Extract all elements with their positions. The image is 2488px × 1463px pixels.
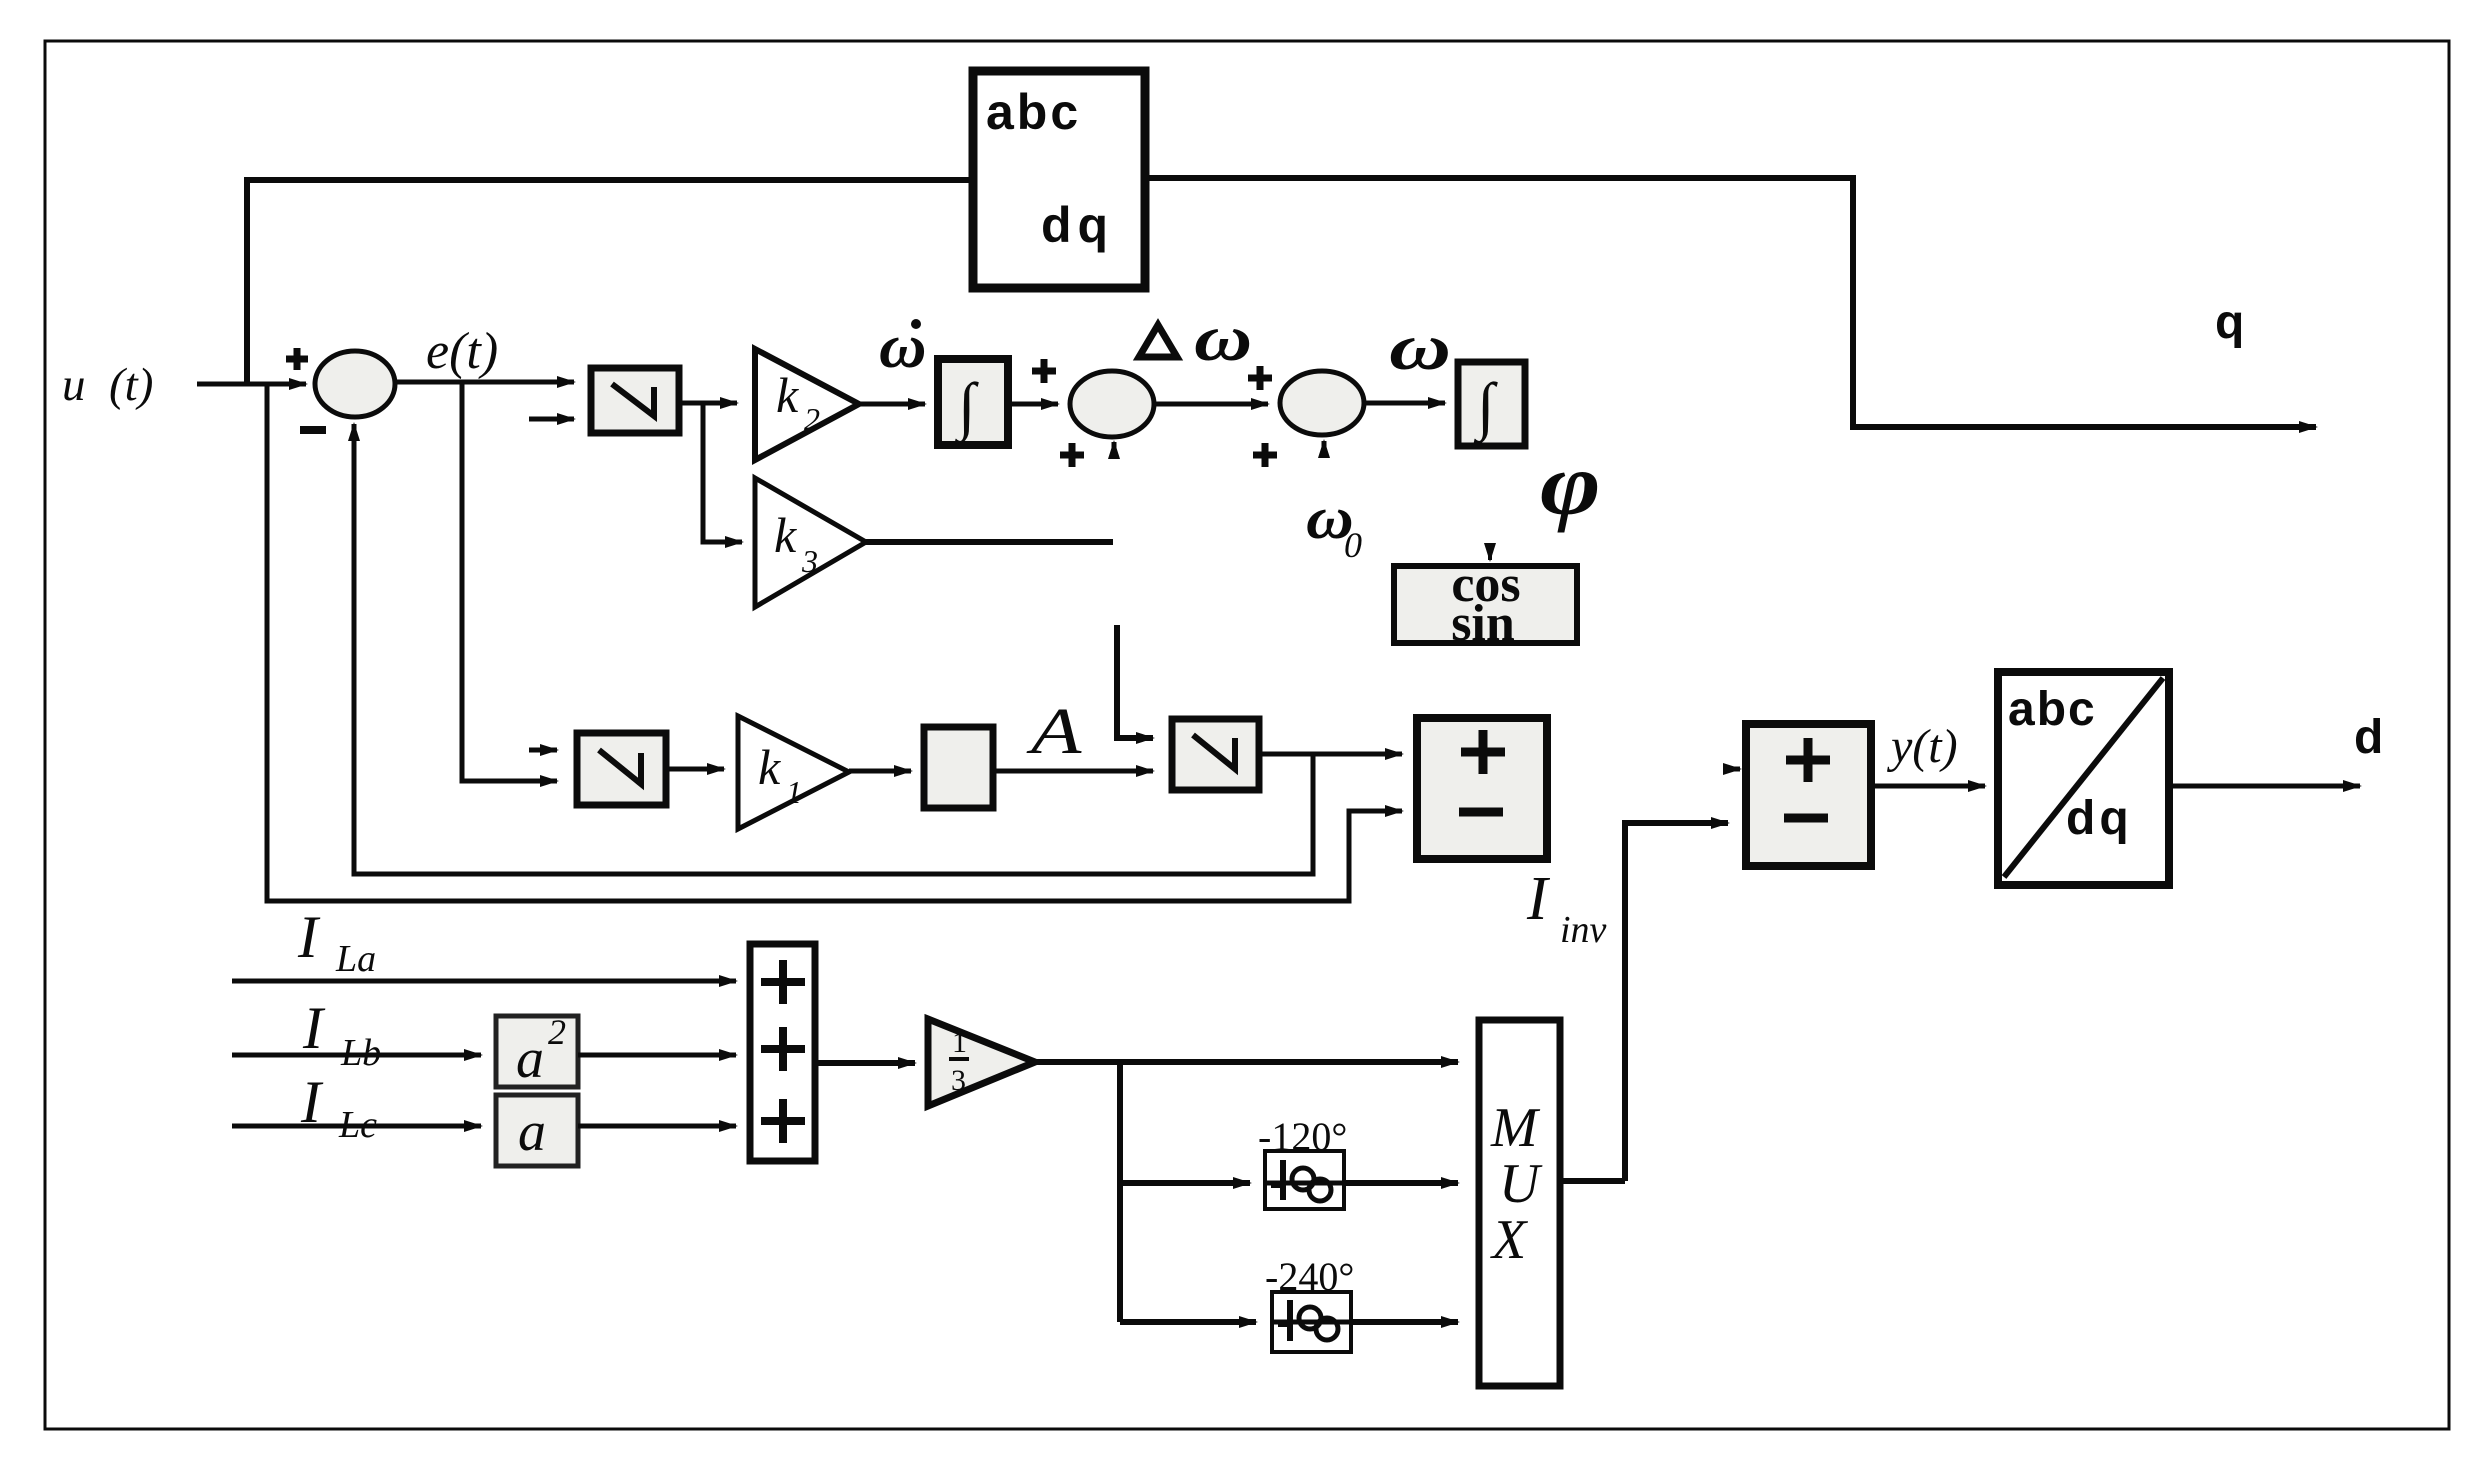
wire: k2 output to integrator 1 [859, 402, 925, 407]
wire: I_Lb input to a^2 block [232, 1053, 481, 1058]
svg-text:ω: ω [1194, 301, 1252, 375]
wire: 1/3 output to MUX input 1 [1035, 1059, 1458, 1065]
svg-text:q: q [2215, 296, 2244, 349]
wire: -240 block to MUX input 3 [1351, 1319, 1458, 1325]
svg-text:2: 2 [548, 1012, 566, 1052]
svg-text:1: 1 [952, 1026, 967, 1059]
svg-text:k: k [774, 507, 797, 563]
wire: -120 block to MUX input 2 [1344, 1180, 1458, 1186]
node delta-omega label [1139, 301, 1252, 375]
svg-text:X: X [1490, 1209, 1529, 1271]
svg-text:φ: φ [1540, 435, 1601, 533]
wire: saturation 2 output to gain k1 [666, 767, 724, 772]
wire: MUX output to I_inv riser [1560, 1178, 1625, 1184]
saturation block 1 [591, 368, 679, 433]
wire: stub arrow into saturation 1 lower input [529, 417, 574, 422]
wire: stub arrow into saturation 2 upper input [529, 748, 557, 753]
gain k3 triangle [755, 478, 866, 607]
wire: a^2 output to summing block [578, 1053, 736, 1058]
block abc/dq 2 (output transform) [1998, 672, 2169, 885]
wire: k1 output to square block [849, 769, 911, 774]
wire: I_La input to summing block [232, 979, 736, 984]
svg-text:dq: dq [2066, 792, 2133, 845]
wire: e(t) branch down to saturation 2 lower input [462, 382, 557, 781]
wire: saturation 1 output to gain k2 [679, 401, 737, 406]
svg-text:3: 3 [801, 543, 818, 579]
wire: e(t) line from summer 1 to saturation 1 [395, 380, 574, 385]
wire: subtractor 2 output to abc/dq 2 [1871, 784, 1985, 789]
integrator 1 [938, 359, 1008, 445]
integrator 2 [1458, 362, 1525, 446]
svg-text:d: d [2354, 711, 2383, 764]
svg-text:k: k [758, 739, 781, 795]
svg-text:La: La [335, 938, 376, 980]
svg-text:A: A [1025, 695, 1081, 768]
phase shift block -240 [1272, 1292, 1351, 1352]
svg-text:1: 1 [786, 774, 802, 810]
svg-text:abc: abc [2008, 683, 2097, 736]
svg-text:abc: abc [986, 84, 1081, 140]
svg-text:e(t): e(t) [426, 323, 498, 380]
block cos/sin [1394, 556, 1577, 652]
node omega-dot label [879, 312, 927, 381]
wire: branch to -240 block [1120, 1319, 1256, 1325]
wire: saturation 3 output to subtractor 1 plus input [1259, 752, 1402, 757]
block MUX [1479, 1020, 1560, 1386]
wire: feedback up-arrow into summer 1 bottom (line A return) [354, 424, 1313, 874]
node I_inv label [1526, 865, 1607, 951]
svg-text:∫: ∫ [954, 370, 979, 445]
wire: branch vertical for phase-shift paths [1117, 1062, 1123, 1322]
svg-text:I: I [297, 904, 321, 970]
summer 3 [1248, 366, 1364, 467]
gain k1 triangle [738, 716, 849, 829]
svg-text:U: U [1499, 1153, 1543, 1215]
wire: k3 output line [866, 539, 1113, 545]
svg-text:2: 2 [804, 401, 820, 437]
wire: I_inv from MUX output up to subtractor 2 minus input [1625, 823, 1728, 1181]
wire: dangling vertical into saturation 3 upper input [1117, 625, 1153, 738]
block abc/dq (top transform) [973, 71, 1145, 288]
svg-text:dq: dq [1041, 197, 1114, 253]
svg-text:∫: ∫ [1473, 370, 1498, 445]
saturation block 2 [577, 733, 666, 805]
summer 2 [1032, 359, 1154, 467]
node I_Lb label [302, 995, 381, 1074]
wire: phi down-arrow into cos/sin [1488, 548, 1492, 560]
phase shift block -120 [1265, 1151, 1344, 1209]
wire: d output [2169, 784, 2360, 789]
wire: integrator 1 output to summer 2 [1008, 402, 1058, 407]
saturation block 3 [1172, 719, 1259, 790]
svg-text:a: a [518, 1101, 546, 1163]
svg-text:ω: ω [1389, 310, 1451, 383]
wire: vertical drop from input junction down to lower feedback (line B) then to subtractor minus input [267, 384, 1402, 901]
svg-text:sin: sin [1451, 595, 1515, 652]
node I_La label [297, 904, 376, 980]
svg-text:y(t): y(t) [1886, 720, 1958, 773]
wire: summing block output to 1/3 gain [815, 1060, 915, 1066]
wire: a output to summing block [578, 1124, 736, 1129]
wire: q output from abc/dq right, down and right [1145, 178, 2316, 427]
node I_Lc label [300, 1069, 377, 1146]
summer 1 (error junction) [286, 348, 395, 430]
svg-text:I: I [302, 995, 326, 1061]
gain 1/3 triangle [928, 1019, 1035, 1106]
wire: branch down to gain k3 [703, 403, 742, 542]
svg-text:M: M [1490, 1097, 1541, 1159]
subtractor block 2 (+ -) [1746, 724, 1871, 866]
svg-text:u (t): u (t) [62, 359, 153, 411]
svg-text:0: 0 [1344, 525, 1362, 565]
summing block (+ + +) [750, 944, 815, 1161]
subtractor block 1 (+ -) [1417, 718, 1547, 859]
wire: I_Lc input to a block [232, 1124, 481, 1129]
square block (unlabeled) [924, 727, 993, 808]
svg-text:3: 3 [951, 1064, 966, 1097]
wire: square block output to saturation 3 lower input [993, 769, 1153, 774]
wire: branch to -120 block [1120, 1180, 1250, 1186]
gain k2 triangle [755, 349, 859, 460]
wire: summer 3 to integrator 2 [1364, 401, 1445, 406]
block a^2 [496, 1012, 578, 1090]
node omega0 label [1306, 485, 1362, 565]
wire: stub arrow into subtractor 2 plus input [1725, 767, 1740, 772]
block a [496, 1095, 578, 1166]
svg-text:k: k [776, 367, 799, 423]
wire: u(t) input line into summer 1 [197, 382, 306, 387]
wire: top feedback from input node up and right to abc/dq block [247, 180, 973, 384]
svg-text:inv: inv [1560, 909, 1607, 951]
svg-text:I: I [1526, 865, 1551, 933]
svg-text:a: a [516, 1028, 544, 1090]
wire: summer 2 to summer 3 [1154, 402, 1268, 407]
